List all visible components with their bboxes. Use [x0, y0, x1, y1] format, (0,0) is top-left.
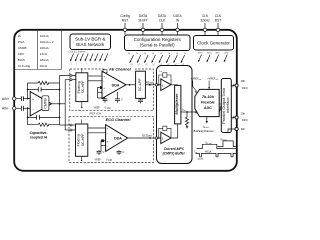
svg-text:100nA x 2: 100nA x 2	[40, 40, 54, 44]
svg-text:PGA: PGA	[18, 40, 25, 44]
port circle ECG into CMPX	[155, 137, 157, 139]
svg-text:D9:0: D9:0	[242, 86, 248, 90]
wires SC-HPF to DDA (FE)	[88, 76, 118, 99]
wire interface to pin D1	[231, 85, 235, 87]
svg-text:D9:0: D9:0	[242, 118, 248, 122]
svg-text:7b-10b: 7b-10b	[202, 95, 215, 99]
feedback loop B1	[159, 75, 171, 85]
bus slash D1	[233, 84, 235, 87]
svg-text:32kHz: 32kHz	[200, 19, 210, 23]
svg-text:-: -	[107, 145, 108, 149]
svg-text:+: +	[103, 86, 105, 90]
wire vertical bus out-	[64, 80, 66, 130]
svg-text:(CMPX) Buffer: (CMPX) Buffer	[163, 152, 186, 156]
svg-text:Interface: Interface	[225, 97, 230, 113]
block Configuration Registers	[125, 35, 191, 51]
chopper square on DDA input 3 (FE)	[100, 86, 103, 89]
svg-text:32kHz: 32kHz	[198, 52, 203, 54]
svg-text:ADC: ADC	[18, 52, 25, 56]
wire interface to pin D2	[231, 117, 235, 119]
bias output arrows	[70, 54, 108, 62]
wire to ECG SC-HPF in-	[65, 129, 75, 131]
svg-text:12nA: 12nA	[40, 52, 48, 56]
block Floating SC-HPF (ECG)	[76, 124, 88, 156]
svg-text:ECG Channel: ECG Channel	[106, 117, 132, 122]
timing waveform trace 1	[197, 144, 237, 148]
svg-text:2b: 2b	[160, 53, 162, 55]
svg-text:8kHz: 8kHz	[216, 52, 220, 54]
FE SC-HPF bottom stub	[81, 102, 83, 107]
clock outputs tiny labels row	[198, 52, 229, 54]
bus ADC to parallel interface	[219, 104, 221, 112]
wire port to buffer 2	[158, 137, 161, 139]
svg-text:40nA: 40nA	[40, 64, 48, 68]
svg-text:+VREFext: +VREFext	[191, 78, 202, 82]
FE SC-HPF top reference stub	[81, 68, 83, 73]
switch box B2	[163, 126, 167, 130]
svg-text:fS2,out: fS2,out	[221, 138, 227, 142]
svg-text:fS1,out: fS1,out	[206, 141, 212, 145]
svg-text:VREF VCM: VREF VCM	[89, 114, 101, 116]
svg-text:Capacitive-: Capacitive-	[29, 131, 48, 135]
config bits tiny labels row	[128, 53, 186, 55]
cap labels (FE)	[104, 99, 124, 102]
label Capacitive-coupled IA	[29, 131, 48, 140]
current table divider line	[37, 31, 39, 70]
clock output arrows	[198, 55, 227, 63]
bias arrow tiny labels	[71, 64, 102, 66]
resistor Rsw vertical	[185, 112, 188, 127]
svg-text:RST: RST	[215, 19, 222, 23]
reference labels VREFP VCM (FE)	[94, 106, 111, 110]
IA output wire	[52, 103, 66, 105]
DDA input signs (FE)	[103, 74, 105, 95]
svg-text:VREF: VREF	[94, 106, 101, 109]
svg-text:2b: 2b	[152, 53, 154, 55]
svg-text:(Serial-to-Parallel): (Serial-to-Parallel)	[140, 43, 175, 48]
svg-text:100nA: 100nA	[40, 34, 50, 38]
svg-text:CMFB: CMFB	[18, 46, 27, 50]
wire to FE SC-HPF in+	[60, 74, 76, 76]
svg-text:SC-HPF: SC-HPF	[81, 134, 85, 147]
config output arrows	[130, 55, 185, 63]
svg-text:CLK: CLK	[159, 19, 166, 23]
op-amp IA triangle	[30, 92, 51, 116]
svg-text:FEout: FEout	[146, 80, 153, 84]
svg-text:SC-HPF: SC-HPF	[81, 81, 85, 94]
feedback capacitor C2b (bottom)	[37, 115, 40, 120]
FE Channel dashed box	[70, 69, 154, 111]
feedback top branch wire	[28, 89, 60, 91]
CMPX buffer rounded box	[157, 66, 193, 164]
current table bottom line	[15, 69, 62, 71]
node dot after DDA	[129, 84, 131, 86]
svg-text:100nA: 100nA	[40, 46, 50, 50]
wire cap to IA -	[23, 107, 30, 109]
pin label data out 1	[241, 79, 249, 90]
node junction dots IA	[27, 89, 61, 119]
wire DDA to SC-LPF	[126, 84, 136, 86]
svg-text:C: C	[104, 99, 106, 102]
svg-text:16kHz: 16kHz	[207, 52, 212, 54]
bus slash D2	[233, 116, 235, 119]
ECG SC-HPF bottom stub	[81, 156, 83, 160]
feedback bottom loop wire	[28, 108, 60, 124]
CMFB block	[42, 96, 49, 111]
input coupling capacitor C1b	[22, 106, 24, 111]
cap labels (ECG)	[103, 151, 125, 154]
wire mux to ADC	[181, 111, 195, 113]
svg-text:2b: 2b	[128, 53, 130, 55]
svg-text:Flexible: Flexible	[201, 101, 215, 105]
node dot ICin	[186, 111, 188, 113]
node dot B1 input	[158, 84, 160, 86]
block Floating SC-HPF (FE)	[76, 73, 88, 102]
wires from top pins to boxes	[125, 23, 218, 36]
svg-text:+: +	[103, 74, 105, 78]
wires SC-HPF to DDA (ECG)	[88, 128, 106, 151]
buffer amp B1 (FE)	[161, 79, 171, 90]
svg-text:Config: Config	[120, 14, 130, 18]
svg-text:-: -	[107, 132, 108, 136]
node dot FEout	[149, 84, 151, 86]
capacitor CB (ECG)	[117, 150, 122, 155]
svg-text:32kHz: 32kHz	[197, 159, 203, 161]
buffer amp B2 (ECG)	[161, 132, 171, 143]
ECG SC-HPF top reference stub	[81, 120, 83, 125]
op-amp DDA (ECG)	[106, 125, 128, 152]
FE Channel label	[105, 67, 135, 72]
VREF wire left	[193, 81, 197, 92]
label Current-MPX (CMPX) Buffer	[163, 147, 186, 156]
input wire AIN+	[16, 98, 21, 100]
svg-text:10b: 10b	[241, 79, 246, 83]
svg-text:coupled IA: coupled IA	[30, 136, 48, 140]
svg-text:SHIFT: SHIFT	[138, 19, 148, 23]
svg-text:Clock Generator: Clock Generator	[197, 41, 230, 46]
feedback top loop wire	[28, 83, 60, 99]
config arrow tiny labels	[130, 63, 185, 67]
svg-text:BIAS Network: BIAS Network	[76, 42, 105, 47]
timing waveform trace 3 with notches	[196, 153, 237, 156]
svg-text:ADC: ADC	[203, 106, 212, 110]
input coupling capacitor C1a	[22, 96, 24, 101]
svg-text:MCLK: MCLK	[205, 151, 212, 154]
ECG Channel label	[102, 117, 134, 122]
capacitor CA (FE)	[103, 98, 108, 103]
pin label data out 2	[241, 112, 249, 123]
node dot B2 input	[158, 137, 160, 139]
VREF wire right	[208, 81, 210, 88]
wire cap to IA +	[23, 98, 30, 100]
svg-text:+: +	[32, 97, 34, 101]
svg-text:2b: 2b	[176, 53, 178, 55]
DDA input signs (ECG)	[107, 126, 109, 148]
top pin circles	[123, 28, 219, 31]
pin circle data out 2	[235, 116, 238, 119]
svg-text:+: +	[107, 126, 109, 130]
svg-text:0.6V & 1.5nA ref.: 0.6V & 1.5nA ref.	[69, 51, 87, 54]
wire interface to pin fs	[228, 129, 235, 133]
multiplexer block	[175, 85, 181, 124]
ADC input port circle	[195, 111, 197, 113]
current table right edge line	[61, 31, 63, 70]
svg-text:10b: 10b	[241, 112, 246, 116]
svg-text:2b: 2b	[144, 53, 146, 55]
chopper switch above DDA (FE)	[103, 70, 107, 76]
svg-text:AIN+: AIN+	[2, 97, 9, 101]
svg-text:CLK+Dig: CLK+Dig	[18, 64, 31, 68]
capacitor CL under SC-LPF	[138, 98, 143, 103]
svg-text:2b: 2b	[136, 53, 138, 55]
op-amp DDA (FE)	[102, 71, 126, 98]
chip outline	[14, 30, 237, 171]
feedback loop B2	[159, 128, 171, 138]
parallel output data interface block	[221, 79, 231, 133]
svg-text:CM: CM	[108, 159, 112, 162]
svg-text:Current-MPX: Current-MPX	[164, 147, 185, 151]
chopper square on DDA input 3 (ECG)	[101, 139, 104, 142]
pseudo-resistor R2 (bottom)	[38, 123, 49, 126]
svg-text:180nA: 180nA	[40, 58, 50, 62]
current sink arrowhead	[186, 126, 188, 128]
reference labels VREFP VCM (ECG)	[95, 158, 112, 162]
pin circle data out 1	[235, 84, 238, 87]
svg-text:-: -	[103, 91, 104, 95]
ADC block 7b-10b Flexible ADC	[195, 89, 219, 116]
svg-text:+: +	[107, 139, 109, 143]
pseudo-resistor R1 (top)	[38, 81, 49, 84]
wire vertical bus out+	[59, 75, 61, 125]
svg-text:CMFB: CMFB	[44, 98, 48, 109]
wire B1 to mux	[171, 84, 178, 87]
block SC-LPF (FE)	[136, 71, 146, 98]
capacitor CB (FE)	[115, 99, 120, 103]
pin labels top	[120, 14, 222, 23]
ECG Channel dashed box	[69, 117, 154, 163]
wire port to buffer 1	[158, 84, 161, 86]
svg-text:RST: RST	[122, 19, 129, 23]
svg-text:2b: 2b	[184, 53, 186, 55]
svg-text:C: C	[103, 151, 105, 154]
svg-text:DDA: DDA	[114, 137, 122, 141]
svg-text:DATA: DATA	[139, 14, 148, 18]
svg-text:(512S/s)/channel: (512S/s)/channel	[193, 129, 214, 133]
port circle FE into CMPX	[155, 84, 157, 86]
svg-text:Configuration Registers: Configuration Registers	[134, 37, 182, 42]
svg-text:ECGout: ECGout	[142, 134, 152, 138]
timing waveform trace 2 pulse	[218, 141, 237, 147]
capacitor CA (ECG)	[97, 150, 102, 155]
svg-text:FE Channel: FE Channel	[109, 67, 131, 72]
svg-text:BIAS: BIAS	[18, 58, 25, 62]
left pin circles	[13, 97, 16, 110]
svg-text:CLK: CLK	[202, 14, 209, 18]
svg-text:Multiplexer: Multiplexer	[174, 93, 179, 115]
svg-text:DDA: DDA	[112, 83, 120, 87]
node dot ECGout	[149, 137, 151, 139]
pin circle fs out	[235, 127, 238, 130]
svg-text:VREF: VREF	[95, 158, 102, 161]
input wire AIN-	[16, 107, 21, 109]
feedback bottom branch wire	[28, 116, 60, 118]
svg-text:-: -	[103, 80, 104, 84]
svg-text:AIN-: AIN-	[2, 107, 9, 111]
wire to ECG SC-HPF in+	[60, 124, 76, 126]
ADC sampling clock stub	[206, 117, 208, 122]
svg-text:2b: 2b	[168, 53, 170, 55]
svg-text:CLK: CLK	[215, 14, 222, 18]
svg-text:DATA: DATA	[158, 14, 167, 18]
switch box B1	[163, 73, 167, 77]
wire SC-LPF to CMPX	[145, 84, 156, 86]
block Sub-1V BGR & BIAS Network	[70, 34, 111, 50]
switch circles at SC-HPF inputs	[70, 74, 72, 131]
svg-text:SC-LPF: SC-LPF	[138, 78, 142, 92]
svg-text:C: C	[123, 151, 125, 154]
svg-text:DR: DR	[241, 128, 245, 131]
wire to FE SC-HPF in-	[65, 79, 76, 81]
block Clock Generator	[194, 36, 234, 51]
wire DDA to CMPX (ECGout)	[128, 137, 157, 139]
svg-text:C: C	[121, 99, 123, 102]
feedback capacitor C2a (top)	[38, 87, 41, 92]
svg-text:1kHz: 1kHz	[224, 52, 228, 54]
svg-text:DATA: DATA	[173, 14, 182, 18]
svg-text:CM: CM	[107, 107, 111, 110]
wire B2 to mux	[171, 124, 178, 138]
